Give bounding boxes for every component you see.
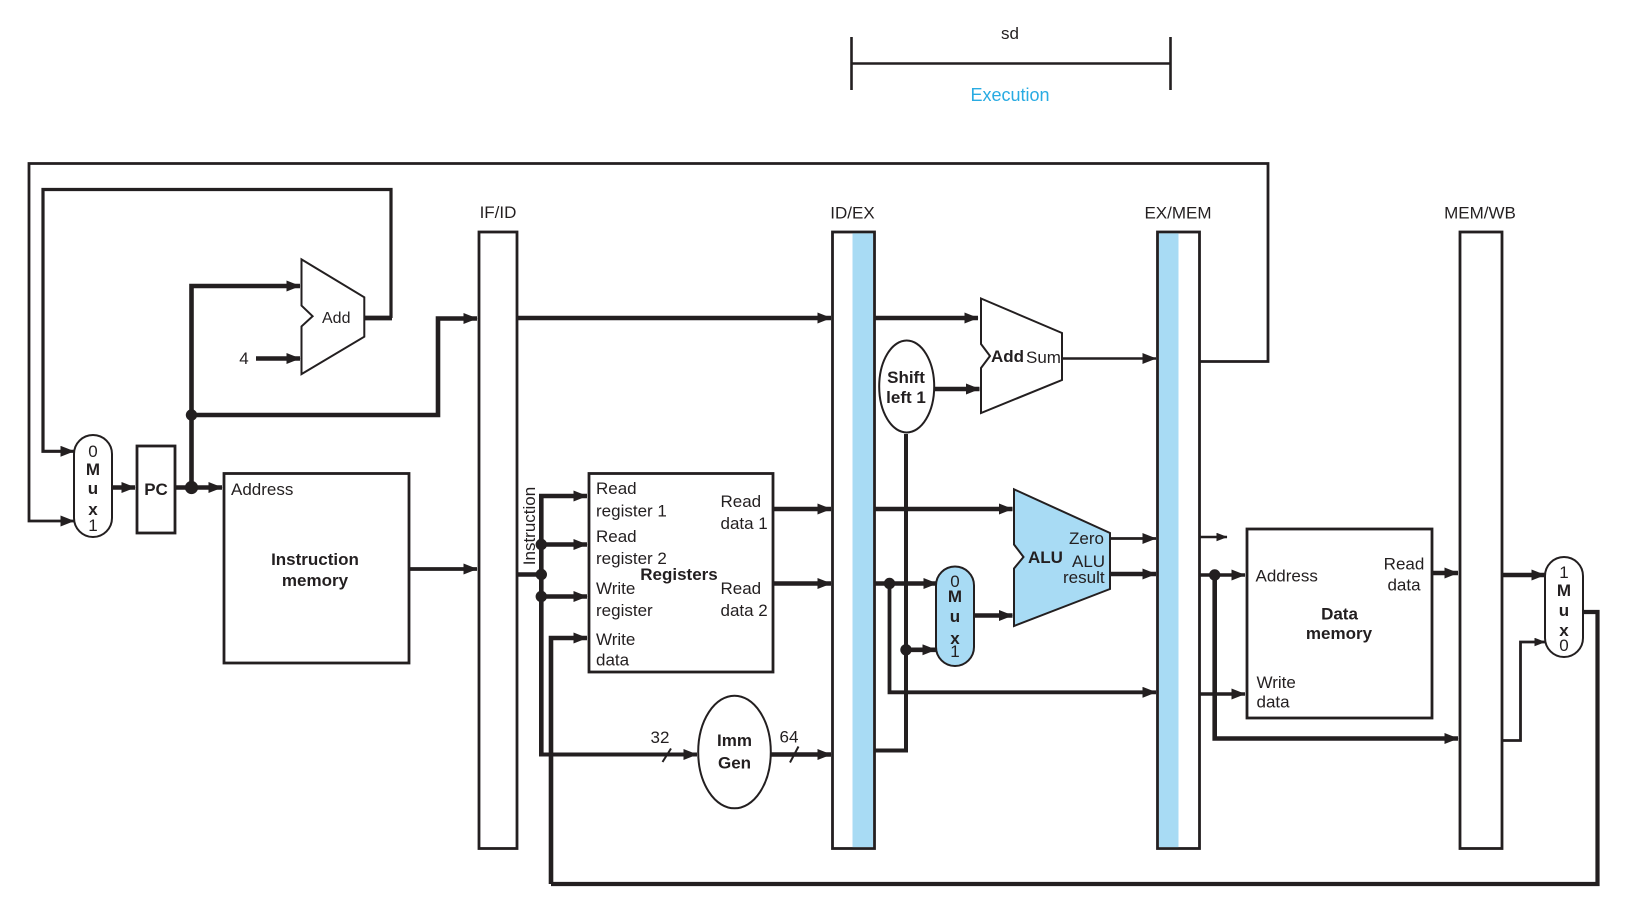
svg-text:Read: Read xyxy=(596,527,637,546)
wire ID/EX read data 2 to mux xyxy=(875,581,938,586)
wire mux to PC xyxy=(112,485,135,490)
wire to imm gen xyxy=(539,753,697,757)
wire ID/EX PC to Add Sum xyxy=(875,316,979,321)
wire PC through IF/ID to ID/EX xyxy=(517,316,831,321)
svg-text:0: 0 xyxy=(88,442,97,461)
adder Add Sum xyxy=(981,299,1062,414)
shift left 1 xyxy=(879,341,934,433)
svg-text:Shift: Shift xyxy=(887,368,925,387)
svg-text:result: result xyxy=(1063,568,1105,587)
svg-text:PC: PC xyxy=(144,480,168,499)
junction PC-out xyxy=(185,481,198,494)
svg-text:memory: memory xyxy=(1306,624,1373,643)
slash 32 xyxy=(663,749,672,763)
svg-text:ID/EX: ID/EX xyxy=(830,204,874,223)
register MEM/WB xyxy=(1444,204,1516,849)
svg-text:32: 32 xyxy=(651,728,670,747)
wire write-back from mux around bottom xyxy=(551,612,1598,884)
svg-text:Write: Write xyxy=(1257,673,1296,692)
register EX/MEM xyxy=(1144,204,1211,849)
svg-text:register 1: register 1 xyxy=(596,502,667,521)
svg-text:Gen: Gen xyxy=(718,754,751,773)
register IF/ID xyxy=(479,203,517,849)
svg-text:data: data xyxy=(1257,693,1291,712)
mux ALUSrc xyxy=(936,567,974,667)
wire read data 2 down to EX/MEM xyxy=(890,584,1157,693)
wire shift out to Add Sum xyxy=(934,387,980,392)
wire instruction out of IF/ID xyxy=(517,572,542,577)
svg-text:Write: Write xyxy=(596,579,635,598)
imm gen xyxy=(698,696,771,809)
wire to write register xyxy=(541,594,587,599)
svg-text:Registers: Registers xyxy=(640,565,717,584)
svg-text:MEM/WB: MEM/WB xyxy=(1444,204,1516,223)
svg-text:u: u xyxy=(88,479,98,498)
svg-text:memory: memory xyxy=(282,571,349,590)
wire PC+4 Add output stub xyxy=(364,316,392,321)
svg-text:u: u xyxy=(1559,601,1569,620)
svg-text:u: u xyxy=(950,607,960,626)
wire ALU zero to EX/MEM xyxy=(1110,537,1156,540)
mux PCSrc xyxy=(74,435,112,537)
wire ALU result to EX/MEM xyxy=(1110,572,1156,577)
junction imm xyxy=(900,644,911,655)
svg-text:4: 4 xyxy=(239,349,248,368)
junction instr write-reg xyxy=(536,591,547,602)
wire imm gen out to ID/EX xyxy=(771,752,832,757)
wire MEM/WB ALU result to mux 0 xyxy=(1502,642,1545,741)
svg-text:Read: Read xyxy=(596,479,637,498)
wire ID/EX read data 1 to ALU xyxy=(875,507,1013,512)
wire Add Sum out to EX/MEM xyxy=(1062,357,1156,360)
svg-text:64: 64 xyxy=(780,728,799,747)
svg-text:Write: Write xyxy=(596,630,635,649)
register ID/EX xyxy=(830,204,874,849)
svg-text:M: M xyxy=(86,460,100,479)
ALU xyxy=(1014,489,1110,626)
svg-text:Instruction: Instruction xyxy=(520,487,539,565)
wire zero stub after EX/MEM xyxy=(1200,536,1228,538)
data memory xyxy=(1247,529,1432,718)
svg-text:Instruction: Instruction xyxy=(271,550,359,569)
wire PC+4 loop to PC mux input 0 xyxy=(43,190,391,452)
svg-text:data 1: data 1 xyxy=(721,514,768,533)
svg-text:Address: Address xyxy=(1256,567,1318,586)
svg-text:ALU: ALU xyxy=(1028,548,1063,567)
wire ALU result to data memory address xyxy=(1200,573,1246,577)
svg-text:Execution: Execution xyxy=(970,85,1049,105)
svg-text:register: register xyxy=(596,601,653,620)
svg-text:Read: Read xyxy=(1384,555,1425,574)
svg-text:M: M xyxy=(948,587,962,606)
svg-text:Data: Data xyxy=(1321,605,1358,624)
slash 64 xyxy=(790,747,799,763)
wire read data 2 to ID/EX xyxy=(773,581,831,586)
svg-text:IF/ID: IF/ID xyxy=(480,203,517,222)
wire branch-target feedback EX/MEM to PC mux input 1 xyxy=(29,164,1268,522)
svg-text:left 1: left 1 xyxy=(886,388,926,407)
wire imm branch to mux input 1 xyxy=(906,647,936,652)
wire ID/EX imm to shift left 1 xyxy=(875,434,907,751)
svg-text:1: 1 xyxy=(88,516,97,535)
svg-text:1: 1 xyxy=(1559,563,1568,582)
svg-text:0: 0 xyxy=(1559,636,1568,655)
wire 4 to Add xyxy=(256,356,300,361)
svg-text:M: M xyxy=(1557,581,1571,600)
junction instr main xyxy=(536,569,547,580)
svg-text:Add: Add xyxy=(991,347,1024,366)
wire write data to data memory xyxy=(1200,692,1246,696)
svg-text:data: data xyxy=(596,651,630,670)
junction PC-branch xyxy=(186,409,197,420)
svg-text:Address: Address xyxy=(231,480,293,499)
svg-text:Zero: Zero xyxy=(1069,529,1104,548)
adder Add (PC+4) xyxy=(302,259,365,374)
wire mux out to ALU xyxy=(974,613,1013,618)
mux MemtoReg xyxy=(1545,557,1583,657)
junction ALU result xyxy=(1209,569,1220,580)
register PC xyxy=(137,446,175,533)
wire instruction bus vertical xyxy=(541,496,587,754)
wire read data to MEM/WB xyxy=(1432,571,1458,576)
wire MEM/WB read data to mux 1 xyxy=(1502,573,1545,578)
svg-text:Read: Read xyxy=(721,579,762,598)
wire PC branch to IF/ID xyxy=(192,319,478,416)
wire ALU result down to MEM/WB xyxy=(1215,575,1458,739)
wire read data 1 to ID/EX xyxy=(773,507,831,512)
svg-text:1: 1 xyxy=(950,642,959,661)
svg-text:EX/MEM: EX/MEM xyxy=(1144,204,1211,223)
wire PC out to instruction memory xyxy=(175,485,222,490)
instruction memory xyxy=(224,474,409,664)
svg-text:Imm: Imm xyxy=(717,731,752,750)
stage bracket sd xyxy=(852,37,1171,90)
registers block xyxy=(589,474,773,673)
junction instr read2 xyxy=(536,539,547,550)
svg-text:Read: Read xyxy=(721,492,762,511)
svg-text:sd: sd xyxy=(1001,24,1019,43)
svg-text:data: data xyxy=(1387,576,1421,595)
wire PC up to Add xyxy=(192,286,301,488)
svg-text:Add: Add xyxy=(322,310,350,327)
svg-text:Sum: Sum xyxy=(1026,348,1061,367)
junction read data 2 xyxy=(884,578,895,589)
wire to read register 2 xyxy=(541,542,587,547)
wire write-back riser to write data xyxy=(551,638,587,884)
wire instruction memory out xyxy=(409,567,477,571)
svg-text:data 2: data 2 xyxy=(721,601,768,620)
